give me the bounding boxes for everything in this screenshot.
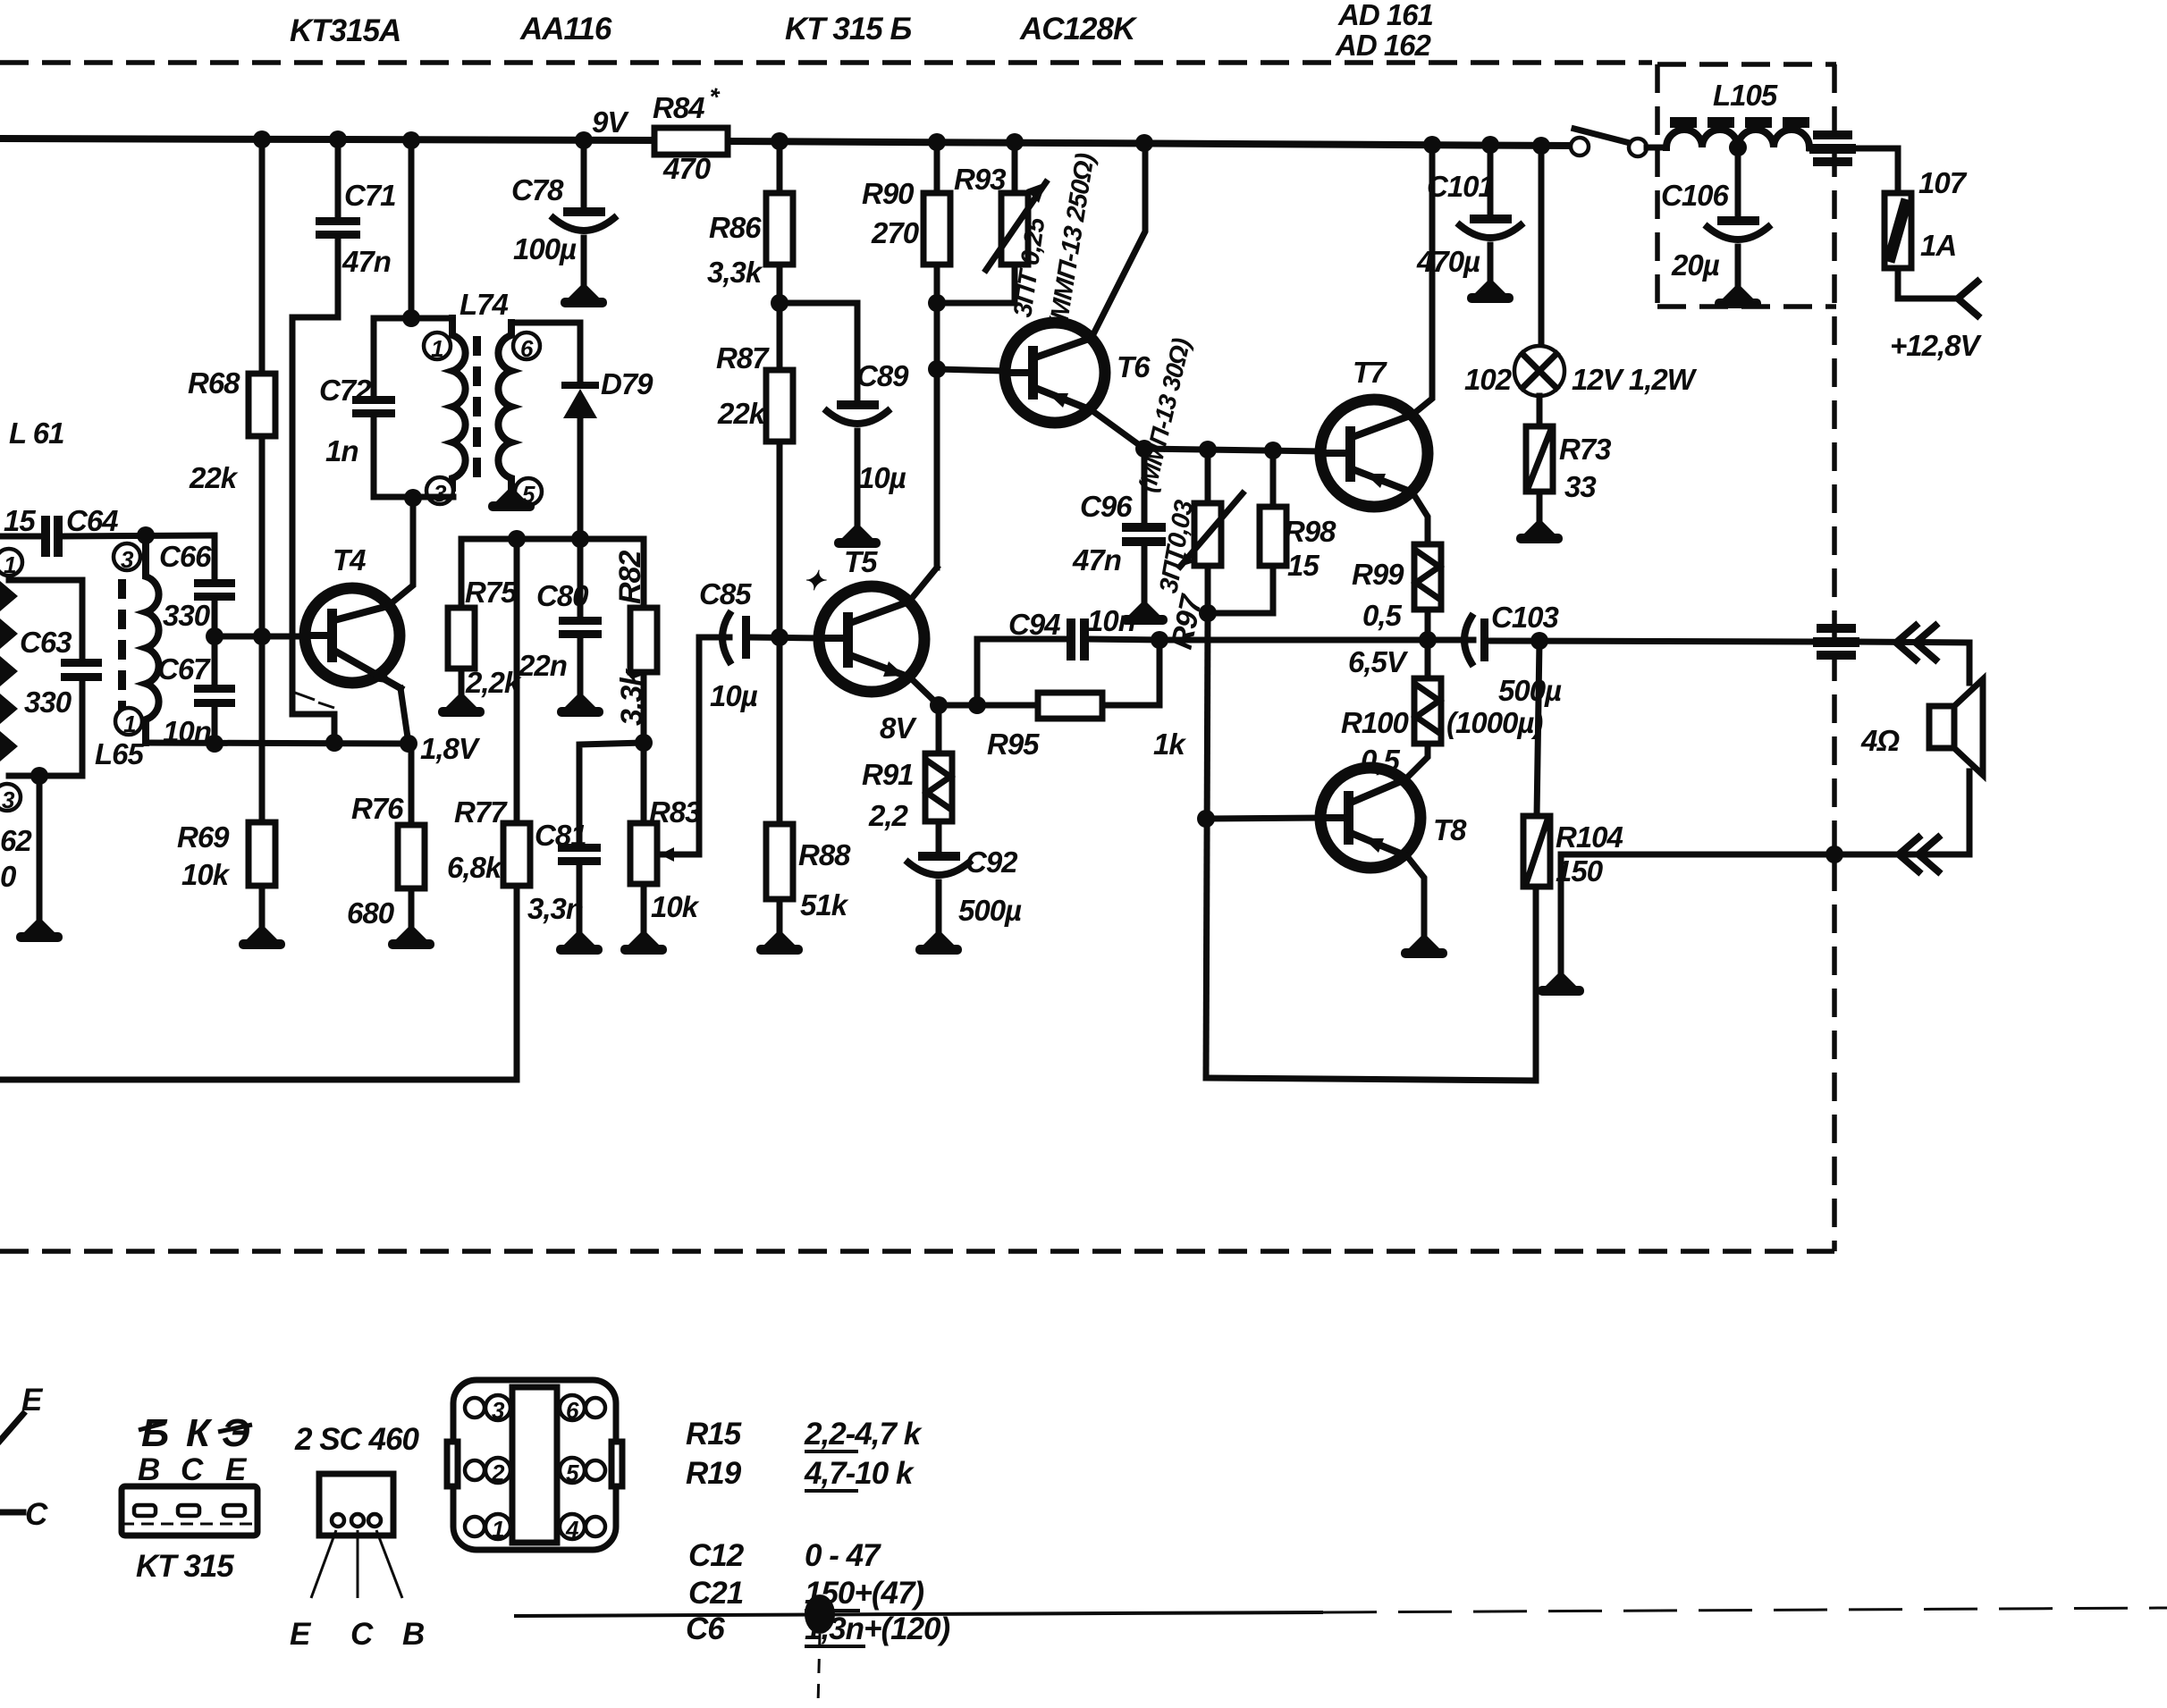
ground speaker return	[1558, 854, 1564, 972]
svg-text:47n: 47n	[341, 245, 391, 278]
capacitor C94	[977, 639, 1067, 705]
svg-text:10µ: 10µ	[710, 679, 758, 712]
node rail C101	[1481, 136, 1499, 154]
wire T8 base	[1206, 818, 1320, 819]
svg-text:R88: R88	[798, 838, 851, 871]
svg-text:6: 6	[566, 1397, 579, 1424]
transistor T7	[1320, 400, 1428, 507]
wire T8 collector	[1405, 744, 1428, 779]
label C left edge	[0, 1510, 23, 1516]
svg-text:R69: R69	[177, 820, 230, 854]
svg-text:3: 3	[492, 1397, 505, 1424]
resistor R90	[934, 142, 940, 193]
svg-text:R91: R91	[862, 758, 914, 791]
svg-text:D79: D79	[601, 367, 653, 400]
svg-text:20µ: 20µ	[1671, 248, 1720, 282]
handwritten Б К Э	[141, 1411, 249, 1455]
capacitor C71	[335, 139, 341, 217]
node T6 emitter	[1135, 440, 1153, 458]
svg-text:C: C	[181, 1452, 204, 1487]
node R82 C81 R83	[635, 734, 653, 752]
node emitter bus T4	[146, 743, 409, 744]
svg-text:1: 1	[4, 551, 16, 578]
trimmer R97	[1205, 450, 1211, 503]
wire audio line to R99 node	[1159, 637, 1428, 644]
capacitor C64	[0, 534, 41, 540]
svg-text:10µ: 10µ	[858, 461, 906, 494]
svg-text:R98: R98	[1284, 515, 1336, 548]
wire to speaker top	[1856, 642, 1969, 643]
svg-text:C103: C103	[1491, 601, 1559, 634]
dashed border top	[0, 60, 1652, 65]
pin 3 L65	[114, 543, 140, 573]
svg-text:2,2k: 2,2k	[465, 666, 522, 699]
node rail T6 collector	[1135, 134, 1153, 152]
svg-text:C106: C106	[1661, 179, 1730, 212]
wire 9V rail right	[728, 141, 1571, 146]
pin 1 L74	[424, 332, 451, 362]
L105 core	[1670, 117, 1809, 128]
speaker	[1929, 706, 1954, 748]
svg-text:К: К	[186, 1411, 213, 1455]
svg-text:C66: C66	[159, 540, 212, 573]
chevron bottom	[1899, 837, 1938, 871]
svg-text:C78: C78	[511, 173, 564, 206]
svg-text:C21: C21	[688, 1576, 743, 1611]
fusible resistor R99	[1414, 544, 1441, 610]
transistor T4	[305, 588, 400, 683]
svg-text:3,3k: 3,3k	[707, 256, 763, 289]
node R97 R98 bottom	[1199, 604, 1217, 622]
coil L65	[146, 535, 159, 743]
coil L105	[1666, 130, 1809, 147]
svg-text:R90: R90	[862, 177, 915, 210]
svg-text:L105: L105	[1713, 79, 1778, 112]
svg-text:2: 2	[491, 1460, 505, 1486]
resistor R95	[977, 703, 1038, 709]
svg-text:3: 3	[434, 480, 447, 507]
pin 5 L74	[515, 478, 542, 508]
diode D79	[561, 382, 599, 389]
wire T7 base line	[1144, 449, 1320, 451]
svg-text:3: 3	[121, 546, 134, 573]
svg-text:15: 15	[1287, 549, 1320, 582]
svg-text:(1000µ): (1000µ)	[1446, 706, 1543, 739]
svg-text:C89: C89	[856, 359, 909, 392]
svg-text:9V: 9V	[592, 105, 629, 139]
svg-text:102: 102	[1464, 363, 1513, 396]
capacitor C92	[918, 852, 960, 861]
svg-text:12V 1,2W: 12V 1,2W	[1572, 363, 1698, 396]
wire T8 emitter	[1407, 856, 1424, 935]
svg-text:T6: T6	[1117, 350, 1151, 383]
svg-text:R95: R95	[987, 728, 1040, 761]
svg-text:R19: R19	[686, 1456, 742, 1491]
svg-text:22k: 22k	[717, 397, 767, 430]
svg-text:B: B	[402, 1617, 424, 1652]
svg-text:C: C	[25, 1497, 48, 1532]
svg-text:3,3k: 3,3k	[615, 668, 649, 726]
svg-text:5: 5	[566, 1460, 579, 1486]
svg-text:C12: C12	[688, 1538, 745, 1573]
wire speaker top corner	[1967, 643, 1973, 683]
trimmer R93	[1012, 142, 1018, 193]
svg-text:R83: R83	[649, 795, 701, 829]
svg-text:330: 330	[163, 599, 211, 632]
wire 9V rail left	[0, 139, 654, 140]
svg-text:6,8k: 6,8k	[447, 851, 503, 884]
wire to +12.8V connector	[1898, 268, 1958, 299]
svg-text:22n: 22n	[518, 649, 567, 682]
L74 core	[473, 336, 481, 477]
artifact scan line bottom	[514, 1612, 1323, 1616]
wire L74 secondary top to D79	[511, 323, 580, 382]
fusible resistor R100	[1425, 640, 1431, 678]
svg-text:107: 107	[1918, 166, 1968, 199]
svg-text:C72: C72	[319, 374, 372, 407]
svg-text:KT 315 Б: KT 315 Б	[785, 12, 911, 46]
wire to fuse	[1856, 148, 1898, 193]
capacitor C78	[581, 140, 587, 207]
svg-text:3: 3	[2, 787, 15, 813]
svg-text:R15: R15	[686, 1417, 742, 1451]
pin 1 L65	[115, 708, 142, 737]
wire R83 tap to C85	[657, 637, 729, 854]
svg-text:2,2-4,7 k: 2,2-4,7 k	[804, 1417, 923, 1451]
node rail C71	[329, 130, 347, 148]
wire T7 collector	[1412, 145, 1432, 415]
svg-text:C81: C81	[535, 819, 586, 852]
svg-text:3,3n: 3,3n	[527, 892, 583, 925]
artifact ink blob	[805, 1594, 835, 1634]
svg-text:C: C	[350, 1617, 374, 1652]
potentiometer R83	[641, 743, 647, 823]
svg-text:E: E	[290, 1617, 312, 1652]
svg-text:15: 15	[4, 504, 36, 537]
svg-text:T8: T8	[1433, 813, 1467, 846]
IF can notch right	[611, 1442, 622, 1486]
svg-text:AD 162: AD 162	[1335, 29, 1432, 62]
svg-text:10k: 10k	[181, 858, 231, 891]
capacitor C89	[855, 303, 861, 400]
svg-text:270: 270	[871, 216, 920, 249]
pin 3 left edge	[0, 784, 21, 813]
svg-text:470: 470	[662, 152, 712, 185]
svg-text:0,5: 0,5	[1362, 599, 1403, 632]
svg-text:+12,8V: +12,8V	[1890, 329, 1982, 362]
wire feedback loop bottom	[1206, 887, 1536, 1081]
svg-text:6,5V: 6,5V	[1348, 645, 1409, 678]
capacitor C80	[578, 539, 584, 617]
transistor T5	[819, 586, 924, 692]
svg-text:Б: Б	[141, 1411, 168, 1455]
svg-text:0 - 47: 0 - 47	[805, 1538, 881, 1573]
svg-text:L74: L74	[460, 288, 509, 321]
svg-text:R84: R84	[653, 91, 704, 124]
wire speaker bottom	[1561, 771, 1969, 854]
svg-text:C80: C80	[536, 579, 589, 612]
node R75 C80 R82 bus	[461, 539, 644, 608]
svg-text:500µ: 500µ	[958, 894, 1022, 927]
resistor R77	[514, 539, 520, 823]
node rail R93	[1006, 133, 1024, 151]
node L74 primary top	[374, 316, 452, 322]
resistor R104	[1523, 816, 1550, 887]
svg-text:4Ω: 4Ω	[1860, 724, 1900, 757]
svg-text:1A: 1A	[1920, 229, 1956, 262]
svg-text:10k: 10k	[651, 890, 700, 923]
svg-text:L 61: L 61	[9, 416, 63, 450]
L65 core	[118, 579, 126, 720]
svg-text:470µ: 470µ	[1416, 245, 1480, 278]
ground C63	[37, 776, 43, 919]
resistor R87	[777, 303, 783, 370]
node rail lamp102	[1532, 137, 1550, 155]
transformer L74 secondary	[498, 323, 511, 486]
capacitor C81	[558, 844, 601, 852]
svg-text:0: 0	[0, 860, 17, 893]
node C66 C67	[206, 627, 223, 645]
svg-text:C92: C92	[965, 846, 1018, 879]
svg-text:C94: C94	[1008, 608, 1060, 641]
capacitor C106	[1735, 147, 1741, 216]
svg-text:T7: T7	[1353, 356, 1387, 389]
node R90 R93 bottom	[928, 294, 946, 312]
wire T4 collector	[388, 498, 413, 606]
svg-text:100µ: 100µ	[513, 232, 577, 265]
pad 6	[560, 1395, 585, 1424]
resistor R98	[1270, 450, 1277, 507]
pin 1 left edge	[0, 549, 22, 578]
node dashed border crossing	[1826, 846, 1843, 863]
mark scratch	[295, 693, 334, 708]
dashed border right	[1832, 64, 1837, 1251]
pad 5	[560, 1458, 585, 1486]
svg-text:1: 1	[123, 711, 136, 737]
pin 6 L74	[513, 332, 540, 362]
svg-text:22k: 22k	[189, 461, 239, 494]
svg-text:R86: R86	[709, 211, 762, 244]
svg-text:500µ: 500µ	[1498, 674, 1562, 707]
svg-text:62: 62	[0, 824, 32, 857]
svg-text:10n: 10n	[1087, 604, 1135, 637]
wire bottom bus left	[0, 1077, 517, 1083]
svg-text:51k: 51k	[800, 888, 849, 921]
svg-text:C64: C64	[66, 504, 118, 537]
svg-text:R104: R104	[1556, 820, 1623, 854]
svg-text:✦: ✦	[803, 567, 827, 596]
capacitor C63	[9, 580, 82, 657]
svg-text:B: B	[138, 1452, 159, 1487]
capacitor C101	[1488, 145, 1494, 215]
svg-text:2 SC 460: 2 SC 460	[294, 1422, 419, 1457]
pad 4	[560, 1514, 585, 1543]
node C63 bottom	[30, 767, 48, 785]
capacitor C96	[1142, 449, 1148, 523]
node L74 primary bottom	[374, 494, 453, 501]
svg-text:R100: R100	[1341, 706, 1410, 739]
capacitor C67	[212, 636, 218, 685]
capacitor C72	[371, 318, 377, 396]
feedthrough capacitor output	[1817, 624, 1856, 633]
wire T6 collector	[1092, 143, 1145, 338]
svg-text:C85: C85	[699, 577, 752, 610]
capacitor C66	[212, 535, 218, 579]
node rail T7 collector	[1423, 136, 1441, 154]
svg-text:C101: C101	[1427, 170, 1494, 203]
svg-text:680: 680	[347, 896, 395, 930]
svg-text:R75: R75	[465, 576, 518, 609]
switch	[1574, 129, 1633, 144]
tuning gang arrows C62	[0, 581, 18, 761]
ground L74 secondary	[496, 486, 527, 501]
trimmer R73	[1537, 396, 1543, 426]
node rail L74	[402, 131, 420, 149]
svg-text:6: 6	[520, 335, 534, 362]
transistor T8	[1320, 768, 1421, 868]
svg-text:R87: R87	[716, 341, 770, 374]
node rail R68	[253, 130, 271, 148]
svg-text:1k: 1k	[1153, 728, 1186, 761]
wire T6 emitter	[1092, 410, 1144, 449]
svg-text:33: 33	[1564, 470, 1596, 503]
transformer L74 primary	[452, 318, 466, 488]
node rail R90	[928, 133, 946, 151]
node R86 R87	[771, 294, 788, 312]
wire T6 base	[937, 369, 1005, 371]
pad 1	[465, 1517, 485, 1536]
svg-text:C67: C67	[157, 652, 211, 686]
pin 3 L74	[426, 477, 453, 507]
node rail R86	[771, 132, 788, 150]
feedthrough capacitor supply	[1813, 130, 1852, 139]
resistor R88	[777, 638, 783, 824]
lamp 102	[1539, 146, 1545, 347]
capacitor C103	[1428, 637, 1473, 644]
resistor R86	[777, 141, 783, 193]
svg-text:T5: T5	[844, 545, 878, 578]
node rail C78	[575, 131, 593, 149]
leads 2SC460	[311, 1530, 402, 1598]
svg-text:4: 4	[565, 1516, 579, 1543]
chevron top	[1896, 626, 1935, 660]
resistor R75	[448, 608, 475, 669]
svg-text:R93: R93	[954, 163, 1006, 196]
svg-text:47n: 47n	[1072, 543, 1121, 576]
wire R97 down to T8 base	[1206, 613, 1208, 1078]
svg-text:AC128K: AC128K	[1019, 12, 1138, 46]
svg-text:1: 1	[431, 335, 443, 362]
svg-text:E: E	[225, 1452, 248, 1487]
svg-text:R73: R73	[1559, 433, 1611, 466]
svg-text:C71: C71	[344, 179, 396, 212]
svg-text:4,7-10 k: 4,7-10 k	[804, 1456, 915, 1491]
resistor R76	[409, 744, 415, 825]
svg-text:330: 330	[24, 686, 72, 719]
resistor R68	[259, 139, 266, 374]
svg-text:AD 161: AD 161	[1337, 0, 1433, 31]
svg-text:C96: C96	[1080, 490, 1133, 523]
fuse 107	[1885, 193, 1911, 268]
resistor R84	[654, 128, 728, 155]
svg-text:Э: Э	[222, 1411, 249, 1455]
svg-text:T4: T4	[333, 543, 366, 576]
svg-text:C63: C63	[20, 626, 72, 659]
svg-text:8V: 8V	[880, 711, 917, 745]
svg-text:R77: R77	[454, 795, 508, 829]
svg-text:R76: R76	[351, 792, 404, 825]
IF can slug	[512, 1387, 557, 1543]
svg-text:KT 315: KT 315	[136, 1549, 234, 1584]
node T5 emitter right	[939, 703, 977, 709]
dashed border bottom	[0, 1249, 1834, 1254]
resistor R82	[641, 539, 647, 608]
svg-text:2,2: 2,2	[868, 799, 909, 832]
2SC460 package	[319, 1474, 393, 1536]
KT315 package	[122, 1486, 257, 1536]
svg-text:R68: R68	[188, 366, 240, 400]
svg-text:1,8V: 1,8V	[420, 732, 481, 765]
wire rail to L74	[409, 140, 415, 318]
svg-text:1n: 1n	[325, 434, 358, 467]
capacitor C85	[722, 614, 729, 661]
wire lead E	[0, 1414, 23, 1441]
wire T7 emitter to R99	[1412, 492, 1428, 544]
wire T5 collector	[909, 568, 937, 602]
svg-text:KT315A: KT315A	[290, 13, 401, 48]
wire T5 emitter	[910, 677, 939, 705]
pad 2	[465, 1460, 485, 1480]
svg-text:1: 1	[492, 1516, 504, 1543]
svg-text:R82: R82	[613, 551, 647, 604]
wire R90 to T5 collector	[934, 303, 940, 568]
fusible resistor R91	[936, 705, 942, 753]
pad 3	[465, 1398, 485, 1418]
IF can notch left	[447, 1442, 458, 1486]
transistor T6	[1005, 323, 1105, 423]
IF can package	[453, 1380, 616, 1550]
svg-text:R99: R99	[1352, 558, 1404, 591]
wire T4 base	[215, 634, 305, 640]
L105 shield dashed box	[1657, 62, 1836, 67]
resistor R69	[259, 636, 266, 822]
svg-text:L65: L65	[95, 737, 145, 770]
svg-text:AA116: AA116	[519, 12, 612, 46]
wire to C89	[780, 300, 857, 307]
